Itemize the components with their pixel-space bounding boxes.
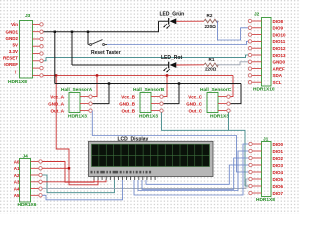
connector J2 (248, 12, 286, 93)
svg-text:Hall_SensorC: Hall_SensorC (200, 87, 232, 93)
wire blue A5 to LCD pin8 (42, 180, 122, 200)
wire LED_Rot anode to R1 (176, 64, 204, 66)
svg-text:DIO7: DIO7 (273, 191, 284, 196)
svg-text:HDR1X3: HDR1X3 (68, 114, 87, 120)
svg-text:Vcc_B: Vcc_B (121, 94, 136, 99)
svg-text:GND0: GND0 (273, 60, 286, 65)
svg-text:HDR1X6: HDR1X6 (18, 202, 37, 208)
wire blue LCD to J1 DIO0 (134, 144, 249, 195)
wire black drops to sensor GND pins (92, 84, 241, 104)
resistor R1 (204, 57, 218, 71)
wire teal RESET bus to J2 DIO13 (42, 55, 248, 61)
wire red down to LCD left (56, 75, 98, 184)
svg-text:DIO5: DIO5 (273, 177, 284, 182)
svg-text:Out_B: Out_B (122, 108, 136, 113)
svg-text:DIO12: DIO12 (273, 46, 287, 51)
wire black to LED_Rot (72, 32, 168, 65)
svg-text:HDR1X8: HDR1X8 (8, 79, 27, 85)
LCD U1 LCD_Display (89, 136, 214, 180)
svg-text:Vcc_A: Vcc_A (50, 94, 65, 99)
wire red A0 to LCD pin1 (42, 162, 94, 183)
wire blue from R2 down to DIO9 (216, 21, 248, 40)
svg-text:GND_C: GND_C (186, 101, 203, 106)
svg-text:J3: J3 (25, 13, 31, 19)
svg-text:A1: A1 (14, 166, 20, 171)
svg-text:Reset Taster: Reset Taster (91, 50, 121, 56)
wire blue switch to J2 DIO11 (107, 41, 248, 44)
svg-text:220Ω: 220Ω (205, 67, 217, 72)
wire teal A2 to LCD pin6 (42, 175, 114, 193)
wire black GND bus 2 (55, 32, 241, 84)
svg-text:DIO9: DIO9 (273, 26, 284, 31)
svg-text:DIO2: DIO2 (273, 156, 284, 161)
LED D2 LED_Gruen symbol (163, 18, 176, 29)
svg-text:AREF: AREF (273, 66, 286, 71)
svg-text:GND2: GND2 (5, 36, 18, 41)
wire blue LCD to J1 DIO2 (142, 158, 249, 189)
svg-text:GND_A: GND_A (48, 101, 65, 106)
svg-text:220Ω: 220Ω (205, 24, 217, 29)
svg-text:DIO8: DIO8 (273, 19, 284, 24)
connector Hall_SensorC (186, 87, 231, 120)
svg-text:A0: A0 (14, 159, 20, 164)
switch S1 Reset Taster (88, 40, 107, 46)
svg-text:DIO1: DIO1 (273, 149, 284, 154)
svg-text:DIO11: DIO11 (273, 39, 286, 44)
svg-text:A4: A4 (14, 186, 20, 191)
svg-text:DIO13: DIO13 (273, 53, 287, 58)
connector J4 (14, 154, 42, 209)
svg-text:Out_A: Out_A (51, 108, 65, 113)
svg-text:LED_Grün: LED_Grün (160, 12, 185, 18)
svg-text:Hall_SensorA: Hall_SensorA (61, 87, 93, 93)
node junctions red bus (55, 74, 168, 76)
node junction dots on GND bus (54, 31, 90, 33)
wire blue Out_A to J1 DIO4 (92, 111, 248, 172)
wire teal Out_B Out_C to J1 (162, 112, 249, 186)
wire red A1 to LCD pin2 (42, 167, 69, 169)
svg-text:A2: A2 (14, 173, 20, 178)
svg-text:R1: R1 (209, 57, 215, 62)
svg-text:GND_B: GND_B (119, 101, 136, 106)
svg-text:RESET: RESET (3, 56, 18, 61)
wire blue LCD to J1 DIO1 (138, 151, 249, 191)
svg-text:R2: R2 (207, 13, 213, 18)
connector J3 (3, 13, 43, 85)
wire blue LCD to J1 DIO3 (146, 165, 249, 184)
svg-text:Out_C: Out_C (189, 108, 203, 113)
wire GND drop to switch (87, 32, 89, 45)
svg-text:IOREF: IOREF (4, 62, 18, 67)
svg-text:A3: A3 (14, 180, 20, 185)
wire red A3 to LCD pin4 (42, 180, 106, 182)
svg-text:J2: J2 (254, 12, 260, 18)
svg-text:DIO4: DIO4 (273, 170, 284, 175)
svg-text:DIO3: DIO3 (273, 163, 284, 168)
svg-text:5V: 5V (12, 43, 18, 48)
svg-text:A5: A5 (14, 193, 20, 198)
wire red drops to sensor Vcc pins (92, 75, 233, 96)
wire R1 to J2 GND0 (216, 62, 248, 65)
svg-text:HDR1X3: HDR1X3 (210, 114, 229, 120)
wire LED_Gruen anode to R2 (176, 20, 204, 22)
connector Hall_SensorB (119, 87, 164, 120)
svg-text:DIO0: DIO0 (273, 142, 284, 147)
svg-text:Vcc_C: Vcc_C (188, 94, 203, 99)
resistor R2 (204, 13, 218, 29)
LCD pins (94, 177, 155, 181)
wire GND bus top (43, 21, 168, 32)
svg-text:DIO10: DIO10 (273, 32, 287, 37)
LCD pin number strip (91, 171, 152, 174)
connector J1 (249, 137, 284, 204)
LED D1 LED_Rot symbol (163, 62, 176, 73)
svg-text:SDA: SDA (273, 73, 283, 78)
svg-text:HDR1X8: HDR1X8 (256, 197, 275, 203)
svg-text:HDR1X10: HDR1X10 (253, 87, 275, 93)
svg-text:Hall_SensorB: Hall_SensorB (133, 87, 165, 93)
svg-text:Vin: Vin (11, 22, 18, 27)
wire gray A4 to J1 DIO5 (42, 179, 249, 188)
svg-text:SCL: SCL (273, 80, 282, 85)
connector Hall_SensorA (48, 87, 92, 120)
wire red 5V bus (42, 74, 233, 76)
svg-text:DIO6: DIO6 (273, 184, 284, 189)
svg-text:3.3V: 3.3V (9, 49, 18, 54)
svg-text:HDR1X3: HDR1X3 (139, 114, 158, 120)
svg-text:GND1: GND1 (5, 29, 18, 34)
node junctions black bus2 (108, 82, 180, 84)
svg-text:LED_Rot: LED_Rot (161, 55, 182, 61)
